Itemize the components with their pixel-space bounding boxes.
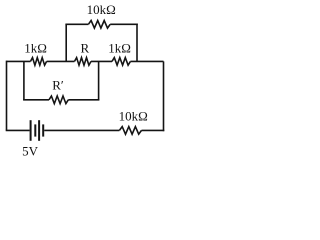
wire middle row segment A (7, 60, 31, 62)
wire bottom segment A (6, 129, 30, 131)
wire R-prime loop right vertical (98, 61, 100, 99)
svg-text:10kΩ: 10kΩ (119, 109, 148, 124)
wire top branch left vertical (65, 24, 67, 61)
svg-text:5V: 5V (22, 143, 38, 158)
svg-text:1kΩ: 1kΩ (24, 41, 47, 56)
wire top branch right vertical (136, 24, 138, 62)
resistor R (75, 58, 92, 66)
wire bottom segment B (44, 129, 119, 131)
svg-text:1kΩ: 1kΩ (108, 41, 131, 56)
battery B1 plate short right (42, 124, 44, 136)
resistor 10k bottom (119, 127, 141, 135)
svg-text:R: R (81, 40, 90, 55)
wire R-prime loop bottom left (23, 99, 49, 101)
wire bottom segment C (142, 129, 165, 131)
svg-text:R′: R′ (52, 77, 64, 92)
wire R-prime loop left vertical (23, 61, 25, 99)
resistor 1k left (31, 58, 47, 66)
wire middle row segment D (130, 60, 163, 62)
resistor R-prime (49, 96, 68, 104)
resistor 1k right (112, 58, 130, 66)
wire top branch left horizontal (65, 23, 88, 25)
battery B1 plate long right (38, 120, 40, 141)
wire outer left vertical (6, 61, 8, 131)
wire top branch right horizontal (110, 23, 138, 25)
resistor 10k top (88, 21, 110, 29)
wire middle row segment C (91, 60, 112, 62)
battery B1 plate long left (30, 120, 32, 141)
wire R-prime loop bottom right (68, 99, 99, 101)
wire middle row segment B (47, 60, 75, 62)
svg-text:10kΩ: 10kΩ (87, 2, 116, 17)
battery B1 plate short left (34, 124, 36, 136)
wire outer right vertical (163, 61, 165, 131)
